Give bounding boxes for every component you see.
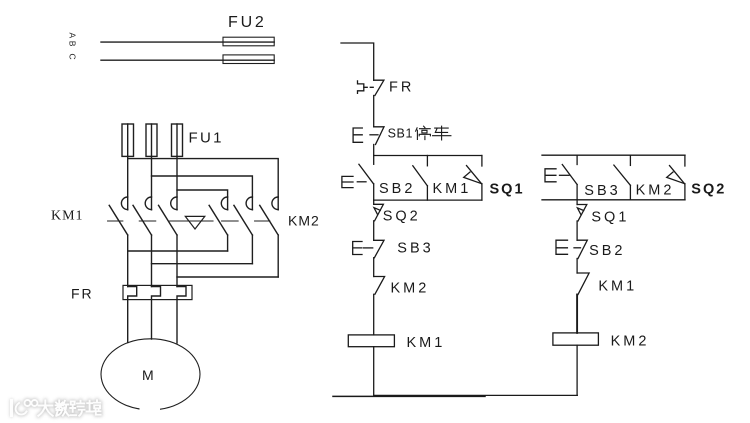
wire phase L2 horizontal feed <box>101 59 274 61</box>
thermal relay FR heater element 2 <box>152 287 161 340</box>
contactor KM2 NC interlock contact <box>374 277 385 295</box>
limit switch SQ2 NC contact <box>374 200 384 221</box>
fuse FU1 pole 2 <box>146 124 157 156</box>
mechanical link triangle <box>185 216 205 229</box>
contactor KM1 aux NO contact <box>413 156 428 201</box>
wire rung1 FR to SB1 <box>373 96 375 127</box>
fuse FU2 element b <box>223 55 274 64</box>
wire rung1 SB1 to parallel group <box>373 145 375 156</box>
label tingche hanzi che <box>433 126 451 140</box>
wire phase 3 vertical below FU1 <box>176 156 178 209</box>
contactor KM1 main contact pole3 <box>159 197 178 235</box>
push button SB3 NC interlock <box>353 240 384 257</box>
wire crossover top tap phase2 to KM2 pole2 <box>152 176 253 210</box>
wire phase 1 vertical below FU1 <box>127 156 129 209</box>
wire parallel group2 bottom bar <box>542 199 685 201</box>
svg-text:C: C <box>68 54 78 60</box>
svg-text:KM1: KM1 <box>433 181 472 197</box>
bus bottom control right <box>374 394 577 396</box>
coil KM2 <box>553 333 599 395</box>
wire KM2 pole2 lower <box>251 235 253 264</box>
svg-text:SQ2: SQ2 <box>383 209 421 225</box>
svg-text:SB2: SB2 <box>379 181 415 197</box>
svg-text:KM2: KM2 <box>288 213 320 229</box>
wire crossover bottom KM2 pole1 to phase1 <box>128 250 228 252</box>
wire parallel group2 top bar <box>542 154 685 156</box>
thermal relay FR NC contact <box>358 80 384 95</box>
contactor KM1 NC interlock contact <box>577 273 589 295</box>
svg-text:B: B <box>68 41 78 47</box>
wire phase 2 vertical below FU1 <box>151 156 153 209</box>
thermal relay FR heater element 1 <box>128 287 137 343</box>
svg-text:KM2: KM2 <box>391 281 430 297</box>
wire parallel group1 bottom bar <box>374 199 482 201</box>
svg-text:KM2: KM2 <box>611 334 650 350</box>
svg-text:SQ2: SQ2 <box>691 181 726 197</box>
push button SB3 NO start reverse <box>545 155 577 200</box>
push button SB1 NC stop <box>353 127 384 145</box>
thermal relay FR box <box>123 285 192 299</box>
svg-text:KM1: KM1 <box>598 278 637 294</box>
svg-text:FR: FR <box>71 286 94 302</box>
wire rung1 KM2 to coil <box>373 294 375 335</box>
svg-text:KM2: KM2 <box>636 183 675 199</box>
wire phase L1 horizontal feed <box>101 41 274 43</box>
contactor KM2 aux NO contact <box>614 155 631 200</box>
watermark halo <box>12 400 101 416</box>
watermark white core <box>12 400 101 416</box>
bus bottom control <box>333 395 485 397</box>
limit switch SQ1 NC contact <box>577 200 587 221</box>
contactor KM1 main contact pole2 <box>133 197 152 235</box>
fuse FU2 element a <box>223 37 274 46</box>
push button SB2 NC interlock <box>556 240 587 258</box>
wire KM2 pole1 lower <box>227 235 229 251</box>
svg-text:FU1: FU1 <box>189 130 224 147</box>
contactor KM2 main contact pole3 <box>260 197 279 235</box>
wire rung2 SQ1 to SB2 <box>576 221 578 240</box>
fuse FU1 pole 1 <box>122 124 134 156</box>
svg-text:SB3: SB3 <box>584 183 620 199</box>
svg-text:A: A <box>68 33 78 39</box>
fuse FU1 pole 3 <box>172 124 183 156</box>
wire rung2 SB2 to KM1 <box>576 259 578 274</box>
wire crossover bottom KM2 pole3 to phase3 <box>177 276 278 278</box>
wire crossover top tap phase1 to KM2 pole3 <box>128 159 279 210</box>
push button SB2 NO start <box>342 156 374 201</box>
wire crossover bottom KM2 pole2 to phase2 <box>152 263 253 265</box>
wire rung1 SQ2 to SB3 <box>373 221 375 241</box>
coil KM1 <box>348 335 394 396</box>
wire KM2 pole3 lower <box>277 235 279 277</box>
mechanical link dashed line KM row <box>108 220 270 222</box>
wire KM1 pole2 lower <box>151 235 153 287</box>
svg-text:KM1: KM1 <box>51 209 84 224</box>
motor M circle <box>101 339 200 414</box>
contactor KM2 main contact pole1 <box>209 197 228 235</box>
svg-text:SB3: SB3 <box>397 241 433 257</box>
wire control top corner <box>341 43 374 80</box>
label tingche hanzi ting <box>416 126 431 139</box>
svg-text:KM1: KM1 <box>407 335 446 351</box>
svg-text:SB1: SB1 <box>388 126 413 140</box>
svg-text:SQ1: SQ1 <box>591 209 629 225</box>
svg-text:SQ1: SQ1 <box>490 181 525 197</box>
wire crossover top tap phase3 to KM2 pole1 <box>177 190 228 210</box>
contactor KM1 main contact pole1 <box>109 197 128 235</box>
thermal relay FR heater element 3 <box>177 287 186 344</box>
svg-text:M: M <box>142 367 154 383</box>
wire KM1 pole1 lower <box>127 235 129 287</box>
svg-text:FU2: FU2 <box>228 14 267 31</box>
wire rung2 KM1 to coil <box>576 295 578 333</box>
limit switch SQ1 NO contact <box>464 156 482 201</box>
svg-text:FR: FR <box>389 79 414 95</box>
svg-text:SB2: SB2 <box>589 243 625 259</box>
contactor KM2 main contact pole2 <box>234 197 253 235</box>
wire KM1 pole3 lower <box>176 235 178 287</box>
wire parallel group1 top bar <box>374 155 482 157</box>
limit switch SQ2 NO contact <box>667 155 685 200</box>
wire rung1 SB3 to KM2 <box>373 258 375 277</box>
